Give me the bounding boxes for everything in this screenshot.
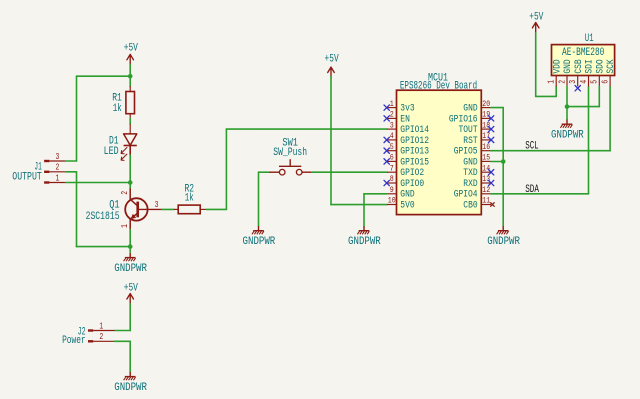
svg-text:1k: 1k: [185, 193, 194, 205]
MCU1 pin 20 (GND): [463, 100, 491, 114]
no-connect X: [384, 180, 389, 185]
svg-text:GND: GND: [463, 103, 477, 114]
svg-text:GNDPWR: GNDPWR: [243, 236, 276, 248]
no-connect X: [384, 105, 389, 110]
resistor R1: [126, 86, 135, 119]
MCU1 pin 4 (GPIO12): [387, 132, 429, 146]
svg-text:CB0: CB0: [463, 199, 477, 210]
svg-text:1: 1: [99, 321, 103, 331]
svg-text:6: 6: [600, 80, 610, 84]
svg-text:+5V: +5V: [124, 43, 138, 55]
no-connect X: [384, 116, 389, 121]
power +5V symbol: [124, 43, 138, 65]
sensor U1 AE-BME280: [552, 45, 615, 76]
no-connect X: [488, 170, 493, 175]
J1 pin 1: [44, 181, 49, 183]
MCU1 pin 18 (TOUT): [459, 121, 492, 135]
junction: [501, 159, 506, 164]
no-connect X: [575, 86, 580, 91]
wire R1 to D1: [129, 118, 131, 124]
J2 pin 1: [88, 329, 93, 331]
svg-text:15: 15: [482, 154, 490, 163]
svg-text:GPIO12: GPIO12: [400, 135, 429, 146]
no-connect X: [488, 180, 493, 185]
MCU1 pin 6 (GPIO15): [387, 154, 429, 168]
wire D1 cathode to collector node: [129, 155, 131, 189]
junction: [128, 74, 133, 79]
no-connect X: [384, 148, 389, 153]
MCU1 pin 15 (GND): [463, 154, 491, 168]
svg-text:GPIO2: GPIO2: [400, 167, 424, 178]
wire MCU1 pin15 GND to junction: [491, 161, 503, 163]
svg-text:SDA: SDA: [525, 184, 539, 196]
MCU1 pin 13 (RXD): [463, 175, 491, 189]
svg-text:AE-BME280: AE-BME280: [562, 47, 604, 59]
svg-text:12: 12: [482, 186, 490, 195]
transistor Q1 2SC1815 (NPN): [120, 189, 162, 230]
wire U1 VDD pin down: [555, 86, 557, 96]
svg-text:20: 20: [482, 100, 490, 109]
power +5V symbol: [124, 283, 138, 304]
svg-text:GND: GND: [463, 156, 477, 167]
wire Q1 base to R2: [162, 208, 174, 210]
no-connect X: [488, 116, 493, 121]
svg-text:1: 1: [547, 80, 557, 84]
wire SW1 ground vertical: [258, 172, 260, 226]
wire GND vertical to ground: [502, 108, 504, 226]
svg-text:TXD: TXD: [463, 167, 477, 178]
svg-text:U1: U1: [585, 33, 594, 45]
MCU1 pin 19 (GPIO16): [449, 111, 491, 125]
MCU1 pin 5 (GPIO13): [387, 143, 429, 157]
svg-text:TOUT: TOUT: [459, 124, 478, 135]
svg-text:7: 7: [390, 164, 394, 173]
no-connect X: [384, 159, 389, 164]
svg-text:+5V: +5V: [325, 54, 339, 66]
svg-text:4: 4: [579, 80, 589, 84]
wire to MCU1 pin 10 5V0: [331, 204, 387, 206]
wire GND junction to SDO riser: [567, 106, 599, 108]
svg-text:GNDPWR: GNDPWR: [551, 129, 584, 141]
LED D1: [121, 124, 137, 161]
svg-text:1: 1: [390, 100, 394, 109]
ground GNDPWR symbol: [357, 226, 369, 234]
svg-text:2SC1815: 2SC1815: [86, 211, 120, 223]
svg-text:SCL: SCL: [525, 141, 539, 153]
svg-text:3: 3: [155, 200, 159, 210]
switch SW1 SW_Push: [268, 159, 312, 175]
wire J1 pin2 to emitter node: [77, 246, 131, 248]
U1 pin 1 (VDD): [547, 59, 563, 86]
svg-text:1k: 1k: [113, 103, 122, 115]
wire MCU1 pin20 GND horizontal: [491, 107, 503, 109]
svg-text:19: 19: [482, 111, 490, 120]
ground GNDPWR symbol: [124, 253, 136, 261]
svg-text:3v3: 3v3: [400, 103, 414, 114]
svg-text:SW_Push: SW_Push: [273, 147, 307, 159]
svg-text:EPS8266 Dev Board: EPS8266 Dev Board: [400, 80, 477, 92]
connector J1 (3-pin male): [44, 152, 66, 184]
ground GNDPWR symbol: [124, 372, 136, 380]
svg-text:GPIO0: GPIO0: [400, 178, 424, 189]
svg-text:GNDPWR: GNDPWR: [114, 382, 147, 394]
svg-text:4: 4: [390, 132, 394, 141]
svg-text:2: 2: [120, 191, 130, 195]
J1 pin 2: [44, 171, 49, 173]
wire +5V stem to R1: [129, 65, 131, 87]
svg-text:1: 1: [55, 173, 59, 183]
wire SDA net horizontal: [491, 193, 589, 195]
svg-text:GNDPWR: GNDPWR: [348, 236, 381, 248]
no-connect small red x on pin 11: [491, 203, 495, 207]
wire MCU1 pin9 GND horizontal: [364, 193, 387, 195]
svg-text:2: 2: [557, 80, 567, 84]
wire J2 pin2 horizontal: [115, 340, 131, 342]
svg-text:+5V: +5V: [529, 11, 543, 23]
svg-text:Q1: Q1: [109, 199, 120, 211]
svg-text:13: 13: [482, 175, 490, 184]
wire U1 +5V vertical: [535, 33, 537, 97]
svg-text:11: 11: [482, 197, 490, 206]
svg-text:3: 3: [55, 152, 59, 162]
wire J1 pin3 rail vertical: [76, 76, 78, 161]
wire Q1 emitter down: [129, 230, 131, 253]
svg-text:5V0: 5V0: [400, 199, 414, 210]
MCU1 pin 11 (CB0): [463, 197, 491, 211]
svg-text:GPIO4: GPIO4: [454, 189, 478, 200]
svg-text:SDI: SDI: [584, 59, 595, 73]
svg-text:GPIO15: GPIO15: [400, 156, 429, 167]
svg-text:+5V: +5V: [124, 283, 138, 295]
no-connect X: [384, 137, 389, 142]
svg-text:GND: GND: [400, 189, 414, 200]
ground GNDPWR symbol: [252, 226, 264, 234]
svg-text:SDO: SDO: [594, 59, 605, 73]
wire riser vertical to GPIO14 row: [225, 129, 227, 209]
power +5V symbol: [325, 54, 339, 78]
U1 pin 3 (CSB): [568, 59, 584, 86]
J2 pin 2: [88, 340, 93, 342]
junction: [128, 180, 133, 185]
svg-text:GND: GND: [562, 59, 573, 73]
svg-text:RST: RST: [463, 135, 477, 146]
wire J1 pin3 to +5V rail (horizontal): [66, 160, 77, 162]
wire J2 pin1 horizontal: [115, 330, 131, 332]
svg-text:8: 8: [390, 175, 394, 184]
wire +5V down to 5V0 row: [330, 77, 332, 205]
MCU1 pin 14 (TXD): [463, 164, 491, 178]
wire SCL vertical to U1 SCK: [609, 86, 611, 150]
svg-text:LED: LED: [104, 146, 119, 158]
svg-text:5: 5: [390, 143, 394, 152]
wire SCL net horizontal: [491, 150, 610, 152]
svg-text:Power: Power: [62, 335, 86, 347]
MCU1 pin 10 (5V0): [387, 197, 415, 211]
svg-text:GPIO13: GPIO13: [400, 146, 429, 157]
svg-text:14: 14: [482, 164, 490, 173]
svg-text:3: 3: [390, 121, 394, 130]
svg-text:2: 2: [390, 111, 394, 120]
svg-text:3: 3: [568, 80, 578, 84]
svg-text:GPIO16: GPIO16: [449, 113, 478, 124]
junction: [128, 244, 133, 249]
U1 pin 5 (SDO): [590, 59, 606, 86]
wire J1 pin2 horizontal: [66, 171, 77, 173]
connector J2 (2-pin male): [88, 321, 115, 342]
svg-text:GPIO14: GPIO14: [400, 124, 429, 135]
U1 pin 4 (SDI): [579, 59, 595, 86]
svg-text:RXD: RXD: [463, 178, 477, 189]
MCU1 pin 1 (3v3): [387, 100, 415, 114]
svg-text:VDD: VDD: [551, 59, 562, 73]
svg-text:1: 1: [120, 224, 130, 228]
wire J1 pin2 vertical down: [76, 172, 78, 247]
wire junction to J1 pin3 branch: [77, 75, 131, 77]
MCU1 pin 17 (RST): [463, 132, 491, 146]
MCU U MCU1 EPS8266 Dev Board: [397, 90, 482, 214]
svg-text:16: 16: [482, 143, 490, 152]
wire R2 to riser: [206, 208, 226, 210]
wire J1 pin1 to collector node: [66, 182, 131, 184]
MCU1 pin 16 (GPIO5): [454, 143, 491, 157]
svg-text:OUTPUT: OUTPUT: [12, 171, 42, 183]
svg-text:CSB: CSB: [573, 59, 584, 73]
svg-text:6: 6: [390, 154, 394, 163]
wire U1 +5V horizontal to VDD: [536, 95, 557, 97]
wire SDA vertical to U1 SDI: [588, 86, 590, 193]
svg-text:18: 18: [482, 121, 490, 130]
junction: [565, 104, 570, 109]
wire SW1 left to ground corner: [259, 171, 269, 173]
svg-text:17: 17: [482, 132, 490, 141]
svg-text:9: 9: [390, 186, 394, 195]
svg-text:EN: EN: [400, 113, 410, 124]
resistor R2: [174, 205, 206, 214]
svg-text:5: 5: [590, 80, 600, 84]
wire U1 GND pin down to ground: [566, 86, 568, 119]
wire SDO riser vertical: [598, 86, 600, 106]
ground GNDPWR symbol: [560, 120, 572, 128]
wire +5V to J2 pin1 corner: [129, 304, 131, 331]
MCU1 pin 9 (GND): [387, 186, 415, 200]
svg-text:GPIO5: GPIO5: [454, 146, 478, 157]
svg-text:GNDPWR: GNDPWR: [487, 236, 520, 248]
J1 pin 3: [44, 160, 49, 162]
U1 pin 6 (SCK): [600, 59, 616, 86]
wire to MCU1 pin 3 GPIO14: [226, 128, 387, 130]
svg-text:2: 2: [99, 332, 103, 342]
svg-text:SCK: SCK: [605, 59, 616, 73]
svg-text:2: 2: [55, 163, 59, 173]
U1 pin 2 (GND): [557, 59, 573, 86]
MCU1 pin 2 (EN): [387, 111, 410, 125]
wire pin9 GND vertical: [363, 194, 365, 226]
MCU1 pin 8 (GPIO0): [387, 175, 424, 189]
MCU1 pin 3 (GPIO14): [387, 121, 429, 135]
MCU1 pin 12 (GPIO4): [454, 186, 491, 200]
wire J2 pin2 down to ground: [129, 341, 131, 372]
MCU1 pin 7 (GPIO2): [387, 164, 424, 178]
power +5V symbol: [529, 11, 543, 32]
wire SW1 right to MCU1 pin 7 GPIO2: [312, 171, 387, 173]
ground GNDPWR symbol: [497, 226, 509, 234]
svg-text:10: 10: [388, 197, 396, 206]
no-connect X: [488, 137, 493, 142]
no-connect X: [488, 126, 493, 131]
svg-text:GNDPWR: GNDPWR: [114, 263, 147, 275]
